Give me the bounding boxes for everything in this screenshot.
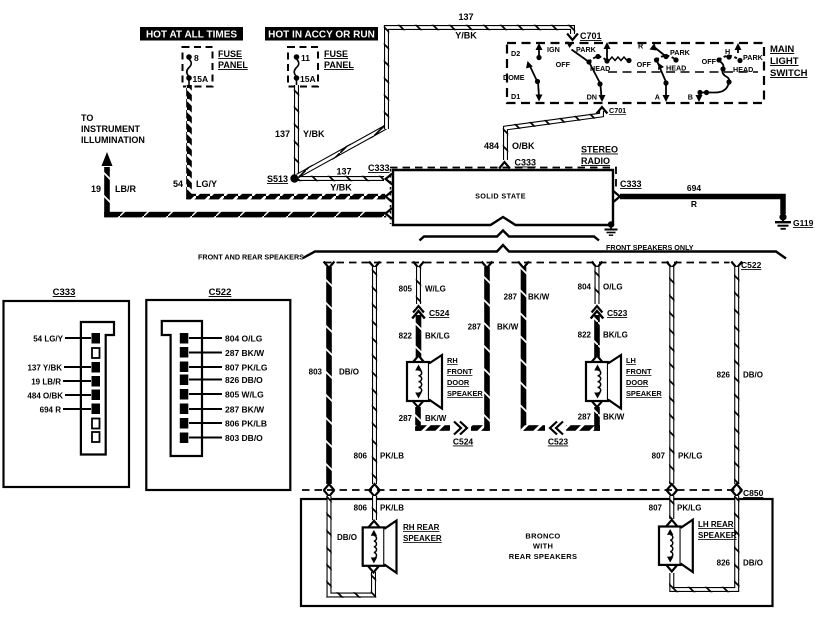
svg-text:LG/Y: LG/Y [196,179,217,189]
svg-text:R: R [638,42,644,51]
svg-text:15A: 15A [193,74,209,84]
svg-text:PK/LG: PK/LG [677,504,701,513]
wire 806 PK/LB to rear RH speaker [354,490,405,527]
label HOT AT ALL TIMES [140,27,243,41]
svg-text:SPEAKER: SPEAKER [403,534,442,543]
svg-text:PANEL: PANEL [218,60,248,70]
wire 822 BK/LG (RH) [399,315,450,362]
svg-text:S513: S513 [267,174,288,184]
svg-text:C701: C701 [609,106,626,115]
C333 pin 137 [27,362,100,373]
svg-text:C523: C523 [607,308,628,318]
svg-text:LB/R: LB/R [115,184,136,194]
C522 pin 287a [180,347,265,358]
svg-text:54 LG/Y: 54 LG/Y [33,335,63,344]
svg-text:C522: C522 [741,260,762,270]
svg-text:54: 54 [173,179,183,189]
svg-text:C333: C333 [620,179,642,189]
C333 pin 694 [40,404,100,415]
switch section A [626,42,690,103]
svg-text:R: R [691,199,697,209]
svg-text:DOME: DOME [503,73,525,82]
label TO INSTRUMENT ILLUMINATION [81,113,145,145]
connector C333 detail box [4,287,130,487]
svg-text:C522: C522 [209,287,232,298]
ground G119 [775,213,814,228]
svg-text:484: 484 [484,141,499,151]
svg-text:DB/O: DB/O [743,371,763,380]
label 137 Y/BK (top run) [455,12,477,41]
svg-text:BK/LG: BK/LG [603,331,628,340]
svg-text:ILLUMINATION: ILLUMINATION [81,135,145,145]
brace front speakers only [420,231,600,241]
connector C524 bottom [450,422,473,447]
wire 804 O/LG [578,262,623,305]
bronco with rear speakers box [301,499,773,606]
label 484 O/BK [484,141,535,151]
C333 pin 54 [33,333,100,344]
wire DB/O rear RH loop [324,490,379,595]
svg-text:805: 805 [399,285,413,294]
C333 pin open 1 [92,348,100,358]
svg-text:WITH: WITH [533,542,553,551]
switch section B [688,43,764,102]
svg-text:826: 826 [717,559,731,568]
svg-text:19 LB/R: 19 LB/R [31,378,61,387]
svg-text:PANEL: PANEL [324,60,354,70]
svg-text:PK/LB: PK/LB [380,452,404,461]
svg-text:OFF: OFF [556,60,571,69]
radio terminal 54 [386,191,392,202]
svg-text:G119: G119 [793,218,814,228]
wire 54 LG/Y from fuse F1 [186,78,385,199]
svg-text:PARK: PARK [576,45,597,54]
svg-text:DB/O: DB/O [339,368,359,377]
label FUSE PANEL (left) [218,49,248,70]
svg-text:OFF: OFF [702,57,717,66]
connector C524 inline [412,306,449,318]
wire 287 BK/W below RH speaker [399,401,490,431]
main light switch U1 dashed box [507,43,764,103]
svg-text:STEREO: STEREO [581,145,618,155]
svg-text:287 BK/W: 287 BK/W [225,405,265,415]
connector C701 bottom [597,106,627,115]
label RH REAR SPEAKER [403,523,442,543]
fuse panel F2 (11, 15A) [288,47,318,87]
wire 822 BK/LG (LH) [578,315,628,362]
svg-text:OFF: OFF [637,60,652,69]
svg-text:19: 19 [91,184,101,194]
svg-text:HOT AT ALL TIMES: HOT AT ALL TIMES [146,29,237,40]
label HOT IN ACCY OR RUN [265,27,378,41]
C333 pin open 2 [92,419,100,429]
svg-text:INSTRUMENT: INSTRUMENT [81,124,140,134]
ground at radio corner [605,221,618,235]
speaker LH front door [586,355,621,409]
wire 19 LB/R horizontal [104,212,386,218]
svg-text:807: 807 [652,452,666,461]
label LH FRONT DOOR SPEAKER [626,356,662,398]
C522 pin 803 [180,433,263,444]
C522 pin 807 [180,362,268,373]
switch dimmer section DN [556,42,611,103]
speaker LH rear [659,520,693,572]
wire 287 BK/W right leg RH loop [468,262,519,431]
radio dashed outline [390,168,616,192]
connector C701 top [567,31,601,41]
wire 805 W/LG [399,262,446,305]
wire 137 diagonal S513 up right [298,127,387,176]
C522 pin 804 [180,333,263,344]
label FUSE PANEL (right) [324,49,354,70]
connector C850 dashed line [302,489,740,491]
svg-text:SPEAKER: SPEAKER [698,531,737,540]
svg-text:826: 826 [717,371,731,380]
speaker RH rear [363,521,397,573]
svg-text:HOT IN ACCY OR RUN: HOT IN ACCY OR RUN [268,29,375,40]
wire 137 vertical riser and top run [387,28,573,130]
svg-text:C701: C701 [580,31,602,41]
svg-text:803: 803 [309,368,323,377]
svg-text:SPEAKER: SPEAKER [626,389,662,398]
svg-text:BK/W: BK/W [497,323,519,332]
svg-text:C850: C850 [743,488,764,498]
C522 pin 805 [180,389,264,400]
svg-text:C523: C523 [548,437,569,447]
svg-text:PARK: PARK [670,48,691,57]
svg-text:PARK: PARK [743,53,764,62]
svg-text:806: 806 [354,452,368,461]
svg-text:HEAD: HEAD [733,65,753,74]
svg-text:LH: LH [626,356,636,365]
arrow to instrument illumination [102,152,113,217]
svg-text:PK/LG: PK/LG [678,452,702,461]
svg-text:137: 137 [336,167,351,177]
label MAIN LIGHT SWITCH [770,44,808,79]
svg-text:DOOR: DOOR [626,378,649,387]
svg-text:BK/W: BK/W [528,293,550,302]
svg-text:FUSE: FUSE [218,49,242,59]
svg-text:287 BK/W: 287 BK/W [225,348,265,358]
svg-text:SOLID STATE: SOLID STATE [475,192,526,201]
svg-text:SWITCH: SWITCH [770,68,808,79]
svg-text:BK/LG: BK/LG [425,332,450,341]
svg-text:FUSE: FUSE [324,49,348,59]
svg-text:Y/BK: Y/BK [330,183,352,193]
svg-text:287: 287 [578,413,592,422]
svg-text:FRONT: FRONT [447,367,473,376]
svg-text:137 Y/BK: 137 Y/BK [27,364,62,373]
svg-text:RH REAR: RH REAR [403,523,440,532]
svg-text:BK/W: BK/W [603,413,625,422]
connector C523 inline [591,306,628,318]
wire 806 PK/LB [354,262,405,491]
wire 826 DB/O [717,262,763,491]
svg-text:C333: C333 [515,158,537,168]
svg-text:806: 806 [354,504,368,513]
svg-text:C524: C524 [429,308,450,318]
svg-text:Y/BK: Y/BK [455,31,477,41]
connector C522 dashed line [324,262,730,264]
svg-text:IGN: IGN [547,45,560,54]
label RH FRONT DOOR SPEAKER [447,356,483,398]
wire 137 from fuse F2 down to S513 [296,78,298,175]
svg-text:RADIO: RADIO [581,156,610,166]
svg-text:LIGHT: LIGHT [770,56,799,67]
label STEREO RADIO [581,145,618,167]
radio solid state box [393,170,613,225]
wire 807 PK/LG [652,262,703,491]
svg-text:287: 287 [399,414,413,423]
svg-text:HEAD: HEAD [666,64,686,73]
speaker RH front door [407,355,442,409]
svg-text:137: 137 [275,129,290,139]
svg-text:SPEAKER: SPEAKER [447,389,483,398]
label LH REAR SPEAKER [698,520,737,540]
svg-text:FRONT: FRONT [626,367,652,376]
brace front and rear speakers [303,245,786,259]
svg-text:DB/O: DB/O [337,533,357,542]
C333 pin open 3 [92,432,100,442]
label 137 Y/BK (vertical wire) [275,129,325,139]
svg-text:694: 694 [687,183,701,193]
C522 pin 826 [180,375,263,386]
svg-text:804: 804 [578,283,592,292]
svg-text:822: 822 [399,332,413,341]
svg-text:C333: C333 [368,163,390,173]
svg-text:804 O/LG: 804 O/LG [225,334,263,344]
svg-text:MAIN: MAIN [770,44,794,55]
C522 pin 287b [180,404,265,415]
svg-text:287: 287 [504,293,518,302]
svg-text:BRONCO: BRONCO [525,532,560,541]
svg-text:15A: 15A [300,74,316,84]
svg-text:11: 11 [301,53,310,63]
svg-text:287: 287 [468,323,482,332]
switch rheostat [609,57,627,61]
svg-text:694 R: 694 R [40,406,62,415]
svg-text:C333: C333 [53,287,76,298]
svg-text:803 DB/O: 803 DB/O [225,433,263,443]
svg-text:8: 8 [194,53,199,63]
radio terminal 694 [614,191,620,202]
connector C522 detail box [146,287,290,490]
svg-text:Y/BK: Y/BK [303,129,325,139]
svg-text:822: 822 [578,331,592,340]
wire 807 PK/LG to rear LH speaker [649,490,702,526]
C333 pin 484 [27,390,100,401]
svg-text:B: B [688,93,693,102]
svg-text:O/BK: O/BK [512,141,535,151]
C333 pin 19 [31,376,100,387]
svg-text:DB/O: DB/O [743,559,763,568]
svg-text:BK/W: BK/W [425,414,447,423]
svg-text:D2: D2 [511,49,520,58]
node S513 [267,174,299,184]
svg-text:807: 807 [649,504,663,513]
svg-text:LH REAR: LH REAR [698,520,734,529]
svg-text:805 W/LG: 805 W/LG [225,390,264,400]
svg-text:137: 137 [458,12,473,22]
svg-text:DOOR: DOOR [447,378,470,387]
svg-text:806 PK/LB: 806 PK/LB [225,419,267,429]
wire 694 R [620,183,783,214]
C522 pin 806 [180,418,267,429]
wire 287 BK/W below LH speaker [578,401,625,431]
wire 826 DB/O rear LH loop [666,490,763,590]
svg-text:A: A [655,93,660,102]
wire 484 O/BK from C701 to radio [499,111,601,169]
wire 287 BK/W left leg LH loop [504,262,600,431]
wire 137 Y/BK S513 to radio [298,167,384,193]
svg-text:D1: D1 [511,92,520,101]
label 54 LG/Y [173,179,217,189]
radio terminal 137 [386,174,392,185]
label BRONCO WITH REAR SPEAKERS [509,532,578,562]
fuse panel F1 (8, 15A) [183,47,213,87]
svg-text:FRONT AND REAR SPEAKERS: FRONT AND REAR SPEAKERS [198,253,304,262]
svg-text:REAR SPEAKERS: REAR SPEAKERS [509,552,578,561]
wire 803 DB/O [309,262,359,491]
main light switch internal divider [608,71,758,73]
radio terminal 19 [386,208,392,219]
label 19 LB/R [91,184,137,194]
svg-text:RH: RH [447,356,458,365]
connector C523 bottom [545,422,568,447]
svg-text:C524: C524 [453,437,474,447]
svg-text:DN: DN [587,93,597,102]
svg-text:O/LG: O/LG [603,283,623,292]
svg-text:807 PK/LG: 807 PK/LG [225,363,268,373]
switch dome section D2/D1 [503,43,560,102]
svg-text:PK/LB: PK/LB [380,504,404,513]
svg-text:TO: TO [81,113,93,123]
svg-text:W/LG: W/LG [425,285,446,294]
svg-text:826 DB/O: 826 DB/O [225,375,263,385]
svg-text:484 O/BK: 484 O/BK [27,392,63,401]
